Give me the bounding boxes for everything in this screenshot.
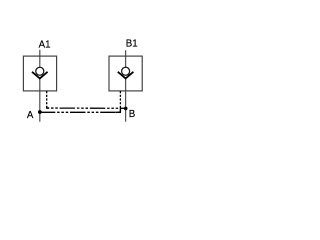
valve B1 body	[109, 56, 142, 91]
check ball B1	[122, 67, 130, 75]
svg-text:A: A	[27, 110, 34, 121]
wire: line A upper segment (above ball)	[39, 50, 41, 68]
junction node B	[124, 107, 128, 111]
svg-text:B1: B1	[126, 39, 138, 50]
pilot line: corner at B1 drop	[116, 108, 121, 112]
valve A1 body	[23, 56, 56, 91]
svg-text:A1: A1	[39, 39, 51, 50]
check ball A1	[36, 67, 44, 75]
seat A1	[32, 72, 48, 79]
pilot line: vertical drop from valve B1	[119, 91, 121, 112]
pilot line: upper horizontal (line B to valve A1)	[47, 107, 126, 109]
wire: line B lower segment (below seat to port B)	[125, 78, 127, 122]
junction node A	[38, 110, 42, 114]
wire: line B upper segment (above ball)	[125, 50, 127, 67]
svg-text:B: B	[129, 109, 135, 120]
wire: line A lower segment (below seat to port A)	[39, 78, 41, 122]
seat B1	[118, 72, 134, 79]
pilot line: vertical drop from valve A1	[46, 91, 48, 108]
pilot line: lower horizontal (line A to valve B1)	[40, 111, 121, 113]
pilot line: corner at A1 drop	[47, 106, 49, 108]
